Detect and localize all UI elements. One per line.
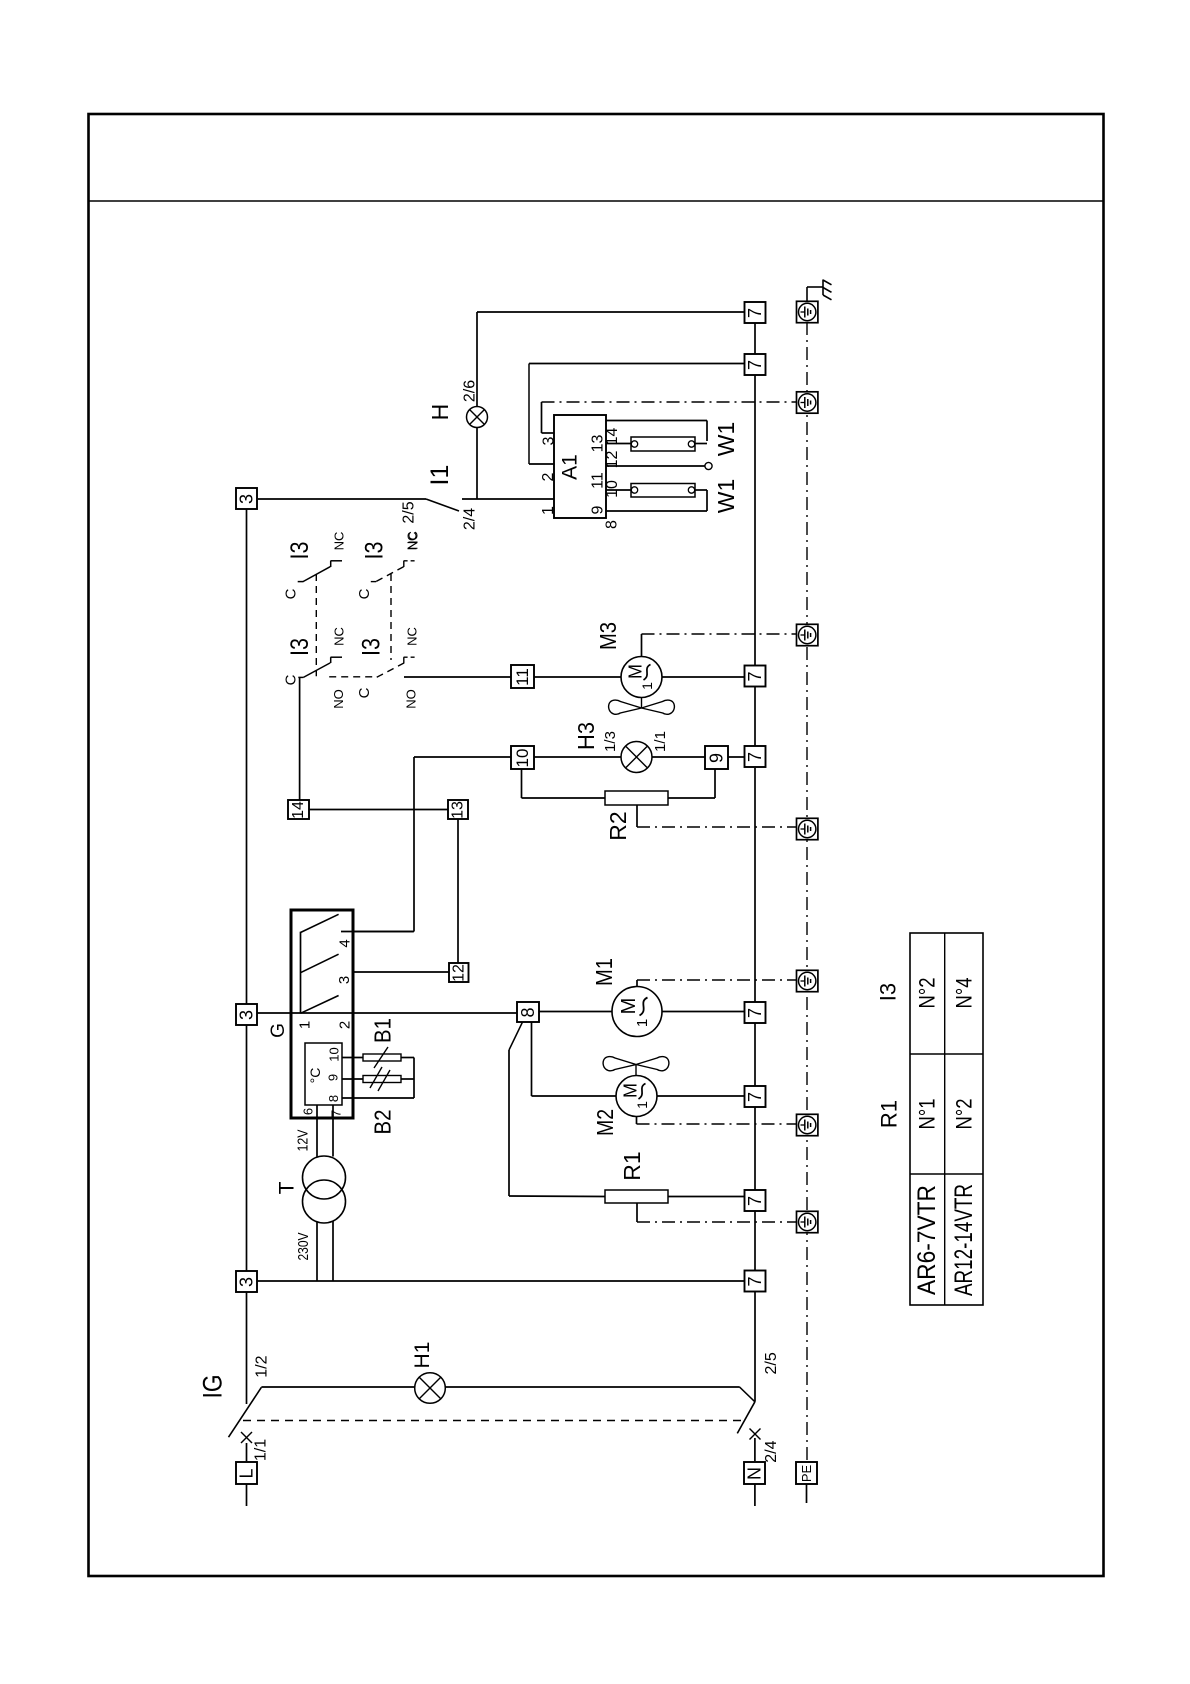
svg-text:B2: B2 [370,1110,396,1135]
svg-text:2: 2 [337,1021,354,1029]
svg-text:N°4: N°4 [952,978,977,1009]
svg-text:4: 4 [337,939,354,947]
svg-text:2: 2 [540,472,557,481]
svg-text:1/1: 1/1 [252,1439,269,1461]
svg-text:2/4: 2/4 [462,508,479,530]
svg-text:R1: R1 [619,1151,645,1180]
svg-text:11: 11 [513,668,532,686]
svg-text:2/5: 2/5 [763,1352,780,1374]
svg-text:C: C [356,687,373,698]
svg-text:NC: NC [405,532,420,551]
svg-text:C: C [283,588,300,599]
svg-text:°C: °C [307,1068,323,1084]
svg-text:IG: IG [198,1375,228,1399]
svg-text:R1: R1 [877,1100,902,1128]
svg-text:C: C [356,588,373,599]
svg-text:9: 9 [590,505,607,514]
svg-text:PE: PE [799,1465,814,1483]
svg-text:NO: NO [404,689,419,709]
svg-text:7: 7 [745,1196,765,1206]
svg-text:NC: NC [332,627,347,646]
svg-text:2/4: 2/4 [763,1440,780,1462]
svg-text:H3: H3 [573,722,599,750]
svg-text:9: 9 [326,1074,341,1081]
svg-text:M: M [618,998,640,1015]
svg-text:7: 7 [745,308,765,318]
svg-text:7: 7 [329,1110,344,1117]
svg-text:8: 8 [604,520,621,529]
svg-text:R2: R2 [605,811,631,840]
svg-text:1/1: 1/1 [652,731,669,752]
svg-text:10: 10 [513,749,532,768]
svg-text:1/3: 1/3 [602,731,619,752]
svg-text:10: 10 [327,1047,342,1061]
svg-text:N°2: N°2 [915,978,940,1009]
svg-text:7: 7 [745,360,765,370]
svg-text:H: H [427,404,453,421]
svg-text:G: G [268,1023,289,1038]
svg-text:14: 14 [290,801,307,819]
svg-text:14: 14 [604,428,621,446]
svg-text:7: 7 [745,671,765,681]
svg-text:W1: W1 [713,479,739,514]
svg-text:A1: A1 [559,454,582,480]
svg-text:I3: I3 [286,542,314,560]
svg-text:NC: NC [405,627,420,646]
svg-text:M1: M1 [591,958,617,986]
svg-text:3: 3 [336,976,353,984]
svg-text:3: 3 [541,436,558,445]
svg-text:M: M [621,1083,641,1098]
svg-text:2/5: 2/5 [401,501,418,523]
svg-text:230V: 230V [295,1233,312,1261]
svg-text:8: 8 [326,1095,341,1102]
svg-text:N: N [745,1467,765,1480]
svg-text:7: 7 [745,1092,765,1102]
svg-text:7: 7 [745,752,765,762]
svg-text:8: 8 [518,1007,538,1017]
svg-text:7: 7 [745,1008,765,1018]
svg-text:1/2: 1/2 [253,1355,270,1377]
svg-text:12: 12 [450,964,467,982]
svg-text:12: 12 [604,451,621,469]
svg-text:I3: I3 [358,638,386,656]
svg-text:N°1: N°1 [915,1099,940,1130]
svg-text:1: 1 [634,1019,651,1027]
svg-text:9: 9 [707,753,727,763]
svg-text:AR12-14VTR: AR12-14VTR [950,1184,978,1296]
svg-text:7: 7 [745,1276,765,1286]
svg-text:T: T [276,1181,299,1194]
svg-text:I3: I3 [361,542,389,560]
svg-text:13: 13 [450,801,467,819]
svg-text:10: 10 [604,480,621,498]
svg-text:B1: B1 [370,1018,396,1043]
svg-text:M2: M2 [592,1109,618,1136]
svg-text:I3: I3 [286,638,314,656]
svg-text:2/6: 2/6 [462,380,479,402]
svg-text:W1: W1 [713,422,739,457]
svg-text:N°2: N°2 [952,1099,977,1130]
svg-text:C: C [283,674,300,685]
svg-text:I3: I3 [876,983,901,1001]
svg-text:3: 3 [237,494,257,504]
svg-text:1: 1 [297,1021,314,1029]
svg-text:1: 1 [639,682,655,690]
svg-text:NC: NC [332,532,347,551]
svg-text:1: 1 [540,506,557,515]
svg-text:H1: H1 [411,1342,434,1369]
svg-text:M: M [626,664,646,679]
svg-text:6: 6 [301,1108,316,1115]
svg-text:L: L [237,1468,257,1478]
svg-text:1: 1 [634,1101,650,1109]
svg-text:M3: M3 [595,622,621,650]
svg-text:12V: 12V [295,1130,312,1152]
svg-text:3: 3 [237,1010,257,1020]
svg-text:I1: I1 [426,465,454,486]
svg-text:13: 13 [590,435,607,453]
svg-text:3: 3 [237,1277,257,1287]
svg-text:AR6-7VTR: AR6-7VTR [913,1185,941,1295]
svg-text:NO: NO [331,689,346,709]
